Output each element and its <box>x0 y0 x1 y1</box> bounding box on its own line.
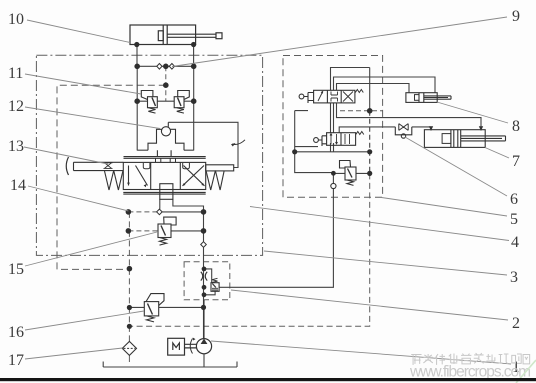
svg-text:12: 12 <box>8 98 24 115</box>
svg-text:6: 6 <box>510 191 518 208</box>
svg-text:15: 15 <box>8 261 24 278</box>
svg-text:13: 13 <box>8 138 24 155</box>
svg-text:7: 7 <box>512 153 520 170</box>
svg-text:10: 10 <box>8 11 24 28</box>
svg-text:14: 14 <box>10 177 26 194</box>
svg-text:3: 3 <box>510 269 518 286</box>
svg-text:2: 2 <box>512 315 520 332</box>
svg-text:11: 11 <box>8 65 23 82</box>
svg-text:16: 16 <box>8 324 24 341</box>
svg-text:4: 4 <box>511 234 519 251</box>
svg-text:17: 17 <box>8 352 24 369</box>
svg-text:5: 5 <box>510 211 518 228</box>
svg-text:www.fibercrops.com: www.fibercrops.com <box>409 364 531 381</box>
svg-text:9: 9 <box>512 8 520 25</box>
svg-text:8: 8 <box>512 118 520 135</box>
